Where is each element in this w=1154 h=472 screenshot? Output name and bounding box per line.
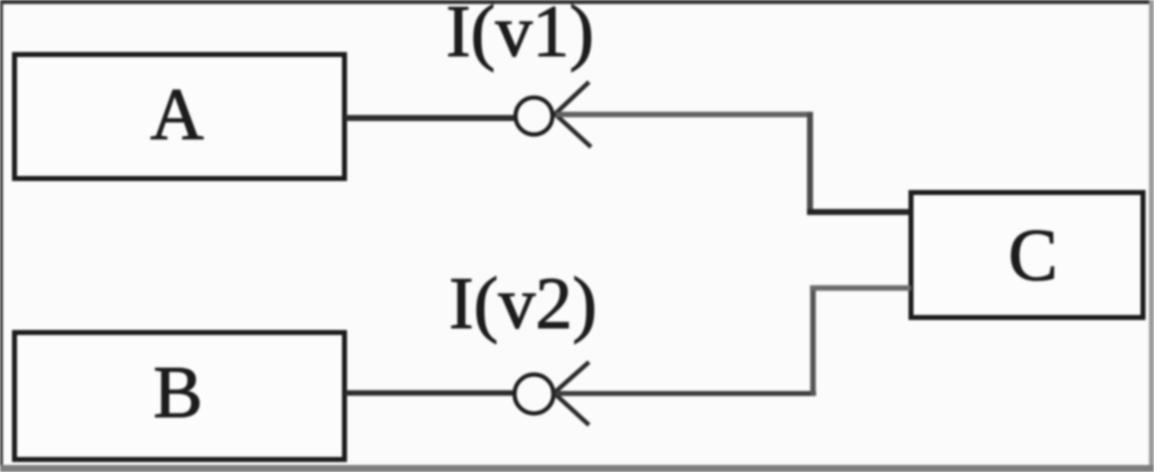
- frame bottom border: [0, 465, 1154, 472]
- current probe I(v1): [516, 82, 592, 147]
- frame left border: [0, 0, 3, 472]
- wire B to probe 2: [345, 390, 516, 396]
- svg-text:I(v2): I(v2): [449, 263, 597, 345]
- svg-text:I(v1): I(v1): [446, 0, 594, 73]
- block C: [911, 193, 1143, 318]
- wire probe 1 to corner: [556, 112, 813, 118]
- frame top border: [0, 0, 1154, 4]
- svg-text:C: C: [1008, 215, 1057, 297]
- svg-text:A: A: [150, 74, 203, 156]
- wire upper connector into C: [807, 209, 911, 215]
- svg-text:B: B: [153, 352, 202, 434]
- wire probe 2 to corner: [556, 391, 816, 396]
- block B: [15, 333, 345, 460]
- frame right border: [1149, 0, 1154, 472]
- wire vertical up to C lower connector: [810, 288, 816, 396]
- wire vertical down to C upper connector: [807, 112, 813, 212]
- wire A to probe 1: [345, 115, 516, 121]
- wire lower connector into C: [810, 285, 911, 291]
- block A: [15, 55, 345, 179]
- current probe I(v2): [515, 362, 590, 425]
